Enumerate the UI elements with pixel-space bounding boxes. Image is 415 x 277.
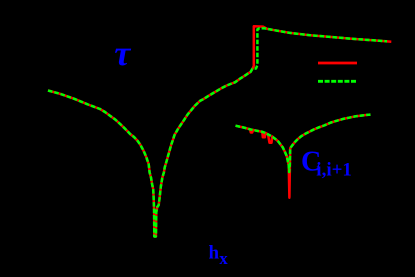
svg-text:x: x xyxy=(219,249,228,268)
tau curve green dashed (on top) xyxy=(48,28,387,236)
svg-text:τ: τ xyxy=(114,33,131,73)
C curve green dashed (on top) xyxy=(236,115,371,172)
svg-text:i,i+1: i,i+1 xyxy=(316,160,352,181)
legend red solid line xyxy=(318,62,357,65)
svg-text:h: h xyxy=(209,243,220,264)
C curve red solid (underneath, with spikes) xyxy=(236,115,371,198)
legend green dashed line xyxy=(318,80,357,83)
tau curve red solid (underneath) xyxy=(48,26,391,236)
